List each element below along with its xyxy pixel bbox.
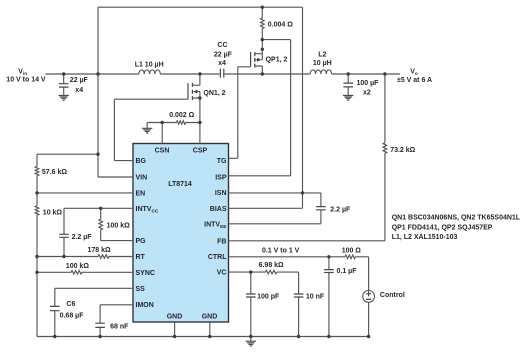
svg-text:L1, L2 XAL1510-103: L1, L2 XAL1510-103 [392,234,458,241]
svg-text:100 Ω: 100 Ω [342,247,362,254]
svg-text:2.2 µF: 2.2 µF [72,234,93,241]
svg-text:0.1 V to 1 V: 0.1 V to 1 V [262,248,300,255]
svg-text:GND: GND [167,314,183,321]
svg-text:2.2 µF: 2.2 µF [330,207,351,214]
svg-text:L1 10 µH: L1 10 µH [135,62,164,69]
svg-text:0.002 Ω: 0.002 Ω [169,112,194,119]
svg-text:10 kΩ: 10 kΩ [43,210,63,217]
svg-text:178 kΩ: 178 kΩ [88,247,112,254]
svg-text:100 kΩ: 100 kΩ [66,263,90,270]
svg-text:QN1 BSC034N06NS, QN2 TK65S04N1: QN1 BSC034N06NS, QN2 TK65S04N1L [392,215,521,222]
svg-text:±5 V at 6 A: ±5 V at 6 A [397,77,432,84]
svg-text:CSP: CSP [193,147,208,154]
svg-text:x4: x4 [75,87,83,94]
svg-text:0.68 µF: 0.68 µF [60,313,85,320]
svg-text:0.1 µF: 0.1 µF [337,268,358,275]
svg-text:C6: C6 [66,301,75,308]
svg-text:100 kΩ: 100 kΩ [107,222,131,229]
svg-text:IMON: IMON [136,302,154,309]
svg-text:BIAS: BIAS [210,206,227,213]
svg-text:L2: L2 [318,51,326,58]
svg-text:x4: x4 [218,60,226,67]
svg-text:6.98 kΩ: 6.98 kΩ [259,262,284,269]
svg-text:RT: RT [136,254,146,261]
svg-text:0.004 Ω: 0.004 Ω [268,22,293,29]
svg-text:Control: Control [380,292,405,299]
svg-text:22 µF: 22 µF [214,52,233,59]
svg-text:22 µF: 22 µF [70,77,89,84]
svg-text:57.6 kΩ: 57.6 kΩ [42,169,67,176]
svg-text:EN: EN [136,190,146,197]
svg-text:GND: GND [202,314,218,321]
svg-text:PG: PG [136,238,147,245]
svg-text:CC: CC [217,42,227,49]
svg-text:SYNC: SYNC [136,270,155,277]
svg-text:10 nF: 10 nF [306,294,325,301]
svg-text:100 pF: 100 pF [257,294,280,301]
svg-text:10 V to 14 V: 10 V to 14 V [6,77,46,84]
svg-text:FB: FB [217,238,226,245]
svg-text:VIN: VIN [136,175,148,182]
svg-text:TG: TG [217,158,227,165]
svg-text:68 nF: 68 nF [110,324,129,331]
svg-text:10 µH: 10 µH [313,60,332,67]
svg-text:ISN: ISN [215,190,227,197]
svg-text:ISP: ISP [215,174,227,181]
svg-text:QP1, 2: QP1, 2 [266,56,288,63]
svg-text:LT8714: LT8714 [168,181,192,188]
svg-text:CTRL: CTRL [208,254,227,261]
svg-text:SS: SS [136,286,146,293]
svg-text:CSN: CSN [155,147,170,154]
svg-text:100 µF: 100 µF [357,80,380,87]
svg-text:VC: VC [217,270,227,277]
svg-text:QP1 FDD4141, QP2 SQJ457EP: QP1 FDD4141, QP2 SQJ457EP [392,225,493,232]
svg-text:BG: BG [136,158,147,165]
svg-text:x2: x2 [363,90,371,97]
svg-text:73.2 kΩ: 73.2 kΩ [390,147,415,154]
svg-text:QN1, 2: QN1, 2 [203,90,225,97]
